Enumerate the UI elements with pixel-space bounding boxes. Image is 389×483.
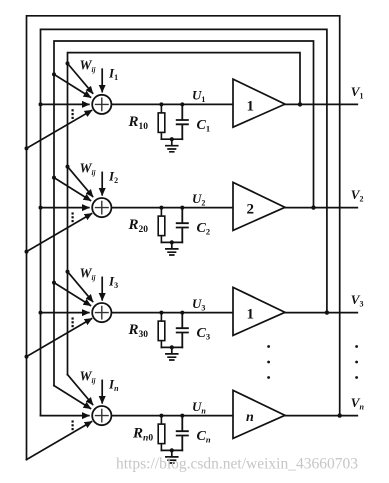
wire weight arrow from V1 bus into Sn — [68, 375, 93, 405]
output junction dot node V2 — [311, 205, 315, 209]
wire Rn0 and Cn bottoms to ground — [161, 449, 182, 451]
wire weight arrow from Vn bus into S1 — [27, 111, 92, 149]
ground symbol row n — [166, 450, 178, 463]
wire amplifier A1 output to V1 terminal — [285, 103, 357, 105]
wire weight arrow from V1 bus into S3 — [68, 272, 93, 302]
wire weight arrow from V2 bus into S1 — [54, 74, 90, 97]
ellipsis dots in weight fan of row 2 — [72, 212, 74, 222]
wire weight arrow from V3 bus into S3 — [41, 312, 89, 314]
wire current input arrow In — [101, 380, 103, 402]
node S2: summing junction circle — [92, 198, 111, 217]
junction dot resistor R20 tap — [159, 206, 163, 210]
junction dot resistor Rn0 tap — [159, 414, 163, 418]
wire S3 output to amplifier input (node U3) — [111, 312, 233, 314]
output junction dot node Vn — [338, 413, 342, 417]
junction dot on V3 bus, row 1 tap — [39, 102, 43, 106]
node Sn: summing junction circle — [92, 406, 111, 425]
junction dot on V2 bus, row 1 tap — [52, 72, 56, 76]
wire current input arrow I3 — [101, 277, 103, 299]
capacitor C3 — [177, 313, 188, 348]
wire feedback loop V1: output node up, across top, down left bus — [68, 53, 301, 375]
wire feedback loop Vn: output node up, across top, down left bus — [27, 16, 340, 460]
junction dot resistor R30 tap — [159, 311, 163, 315]
wire weight arrow from Vn bus into Sn — [27, 422, 92, 460]
svg-text:1: 1 — [247, 98, 255, 114]
op-amp An — [233, 390, 285, 438]
output junction dot node V3 — [325, 310, 329, 314]
junction dot on V2 bus, row 3 tap — [52, 281, 56, 285]
wire current input arrow I1 — [101, 69, 103, 91]
wire R10 and C1 bottoms to ground — [161, 138, 182, 140]
output junction dot node V1 — [298, 102, 302, 106]
wire S1 output to amplifier input (node U1) — [111, 103, 233, 105]
ground symbol row 2 — [166, 242, 178, 255]
resistor R30 — [160, 313, 162, 348]
junction dot ground tap row 2 — [170, 240, 174, 244]
capacitor C1 — [177, 104, 188, 139]
ellipsis dots output column (rows 4..n-1) — [355, 345, 358, 379]
junction dot ground tap row 1 — [170, 137, 174, 141]
junction dot on Vn bus, row 3 tap — [25, 355, 29, 359]
wire amplifier A3 output to V3 terminal — [285, 312, 357, 314]
resistor Rn0 — [160, 416, 162, 451]
wire weight arrow from Vn bus into S3 — [27, 319, 92, 357]
wire feedback loop V3: output node up, across top, down left bus — [41, 29, 327, 415]
wire weight arrow from V2 bus into S2 — [54, 178, 90, 201]
svg-text:https://blog.csdn.net/weixin_4: https://blog.csdn.net/weixin_43660703 — [116, 456, 358, 473]
wire R20 and C2 bottoms to ground — [161, 241, 182, 243]
junction dot on Vn bus, row 2 tap — [25, 250, 29, 254]
capacitor C2 — [177, 208, 188, 243]
wire weight arrow from V1 bus into S1 — [68, 63, 93, 93]
resistor R10 — [160, 104, 162, 139]
wire current input arrow I2 — [101, 172, 103, 194]
wire S2 output to amplifier input (node U2) — [111, 207, 233, 209]
junction dot ground tap row 3 — [170, 345, 174, 349]
junction dot on V2 bus, row 2 tap — [52, 176, 56, 180]
ground symbol row 1 — [166, 139, 178, 152]
wire weight arrow from V3 bus into S2 — [41, 207, 89, 209]
wire weight arrow from V3 bus into Sn — [41, 415, 89, 417]
junction dot capacitor C2 tap — [180, 206, 184, 210]
op-amp A3 — [233, 287, 285, 335]
svg-text:n: n — [246, 410, 254, 425]
wire R30 and C3 bottoms to ground — [161, 346, 182, 348]
capacitor Cn — [177, 416, 188, 451]
op-amp A2 — [233, 182, 285, 230]
svg-text:1: 1 — [247, 307, 255, 323]
wire weight arrow from V2 bus into Sn — [54, 386, 90, 409]
op-amp A1 — [233, 79, 285, 127]
junction dot on Vn bus, row 1 tap — [25, 146, 29, 150]
ellipsis dots in weight fan of row n — [72, 420, 74, 430]
wire Sn output to amplifier input (node Un) — [111, 415, 233, 417]
resistor R20 — [160, 208, 162, 243]
wire amplifier A2 output to V2 terminal — [285, 207, 357, 209]
junction dot on V1 bus, row 2 tap — [66, 165, 70, 169]
ellipsis dots in weight fan of row 1 — [72, 109, 74, 119]
ground symbol row 3 — [166, 347, 178, 360]
junction dot capacitor Cn tap — [180, 414, 184, 418]
wire feedback loop V2: output node up, across top, down left bus — [54, 41, 314, 386]
junction dot on V1 bus, row 3 tap — [66, 270, 70, 274]
svg-text:2: 2 — [247, 202, 255, 218]
junction dot on V3 bus, row 3 tap — [39, 311, 43, 315]
ellipsis dots amplifier column (rows 4..n-1) — [267, 345, 270, 379]
junction dot capacitor C1 tap — [180, 102, 184, 106]
junction dot capacitor C3 tap — [180, 311, 184, 315]
junction dot on V1 bus, row 1 tap — [66, 61, 70, 65]
junction dot ground tap row n — [170, 448, 174, 452]
wire weight arrow from Vn bus into S2 — [27, 214, 92, 252]
wire amplifier An output to Vn terminal — [285, 415, 357, 417]
node S1: summing junction circle — [92, 95, 111, 114]
junction dot resistor R10 tap — [159, 102, 163, 106]
node S3: summing junction circle — [92, 303, 111, 322]
junction dot on V3 bus, row 2 tap — [39, 206, 43, 210]
wire weight arrow from V3 bus into S1 — [41, 103, 89, 105]
wire weight arrow from V1 bus into S2 — [68, 167, 93, 197]
wire weight arrow from V2 bus into S3 — [54, 283, 90, 306]
ellipsis dots in weight fan of row 3 — [72, 317, 74, 327]
